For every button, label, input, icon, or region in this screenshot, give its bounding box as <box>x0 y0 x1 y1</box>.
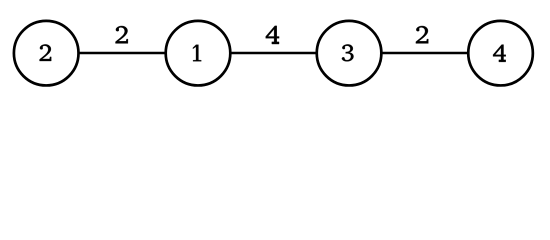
node 3 circle <box>317 21 382 86</box>
node 4 circle <box>468 21 533 86</box>
node 1 circle <box>166 21 231 86</box>
wire edge node3-node4 <box>349 52 501 55</box>
wire edge node2-node1 <box>46 52 198 55</box>
node 2 label <box>40 44 52 61</box>
node 2 circle <box>14 21 79 86</box>
node 3 label <box>342 44 354 61</box>
edge weight 2 between nodes 3 and 4 <box>416 26 428 43</box>
edge weight 4 between nodes 1 and 3 <box>266 26 279 44</box>
wire edge node1-node3 <box>198 52 349 55</box>
node 1 label <box>193 45 201 62</box>
node 4 label <box>493 45 506 62</box>
edge weight 2 between nodes 2 and 1 <box>115 26 127 43</box>
